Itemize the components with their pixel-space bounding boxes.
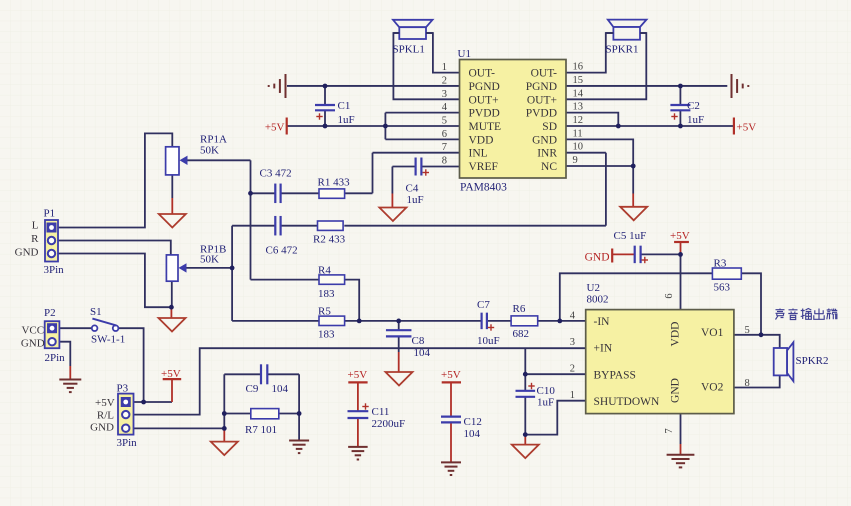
svg-text:PAM8403: PAM8403 [460, 182, 507, 194]
svg-text:15: 15 [573, 75, 584, 86]
svg-text:PGND: PGND [526, 81, 557, 93]
svg-text:5: 5 [745, 325, 750, 336]
svg-text:VO2: VO2 [701, 382, 724, 394]
svg-text:R: R [31, 233, 39, 245]
svg-text:8: 8 [745, 378, 750, 389]
svg-text:5: 5 [442, 116, 447, 127]
svg-text:2: 2 [570, 364, 575, 375]
svg-text:3: 3 [570, 337, 575, 348]
svg-text:L: L [32, 220, 39, 232]
svg-text:1uF: 1uF [537, 397, 554, 409]
svg-text:1uF: 1uF [687, 114, 704, 126]
svg-text:16: 16 [573, 62, 584, 73]
svg-text:6: 6 [442, 129, 447, 140]
svg-text:+5V: +5V [348, 369, 368, 381]
svg-text:GND: GND [21, 338, 45, 350]
svg-text:3Pin: 3Pin [117, 437, 138, 449]
svg-text:C4: C4 [406, 183, 419, 195]
svg-text:P1: P1 [44, 208, 56, 220]
svg-text:OUT-: OUT- [469, 68, 496, 80]
svg-text:SPKR1: SPKR1 [606, 44, 639, 56]
svg-text:C12: C12 [464, 416, 482, 428]
svg-text:R5: R5 [318, 306, 331, 318]
svg-text:OUT+: OUT+ [527, 94, 557, 106]
svg-text:104: 104 [464, 428, 481, 440]
svg-text:R1 433: R1 433 [318, 177, 351, 189]
svg-text:C6 472: C6 472 [266, 245, 298, 257]
svg-text:R4: R4 [318, 265, 331, 277]
svg-text:C3 472: C3 472 [260, 168, 292, 180]
svg-text:+5V: +5V [95, 397, 115, 409]
svg-text:+5V: +5V [737, 122, 757, 134]
svg-text:3Pin: 3Pin [44, 264, 65, 276]
svg-text:GND: GND [585, 252, 610, 264]
svg-text:11: 11 [573, 128, 583, 139]
svg-text:GND: GND [90, 422, 114, 434]
svg-text:VO1: VO1 [701, 327, 724, 339]
svg-text:9: 9 [573, 155, 578, 166]
svg-text:1uF: 1uF [407, 194, 424, 206]
svg-text:2Pin: 2Pin [45, 352, 66, 364]
svg-text:C2: C2 [687, 100, 700, 112]
svg-text:104: 104 [414, 347, 431, 359]
svg-text:NC: NC [541, 161, 557, 173]
svg-text:SW-1-1: SW-1-1 [91, 334, 125, 346]
svg-text:2200uF: 2200uF [372, 418, 406, 430]
svg-text:INR: INR [537, 148, 557, 160]
svg-text:R3: R3 [714, 258, 727, 270]
svg-text:50K: 50K [200, 145, 219, 157]
svg-text:R/L: R/L [97, 410, 114, 422]
svg-text:SD: SD [542, 121, 557, 133]
svg-text:183: 183 [318, 329, 335, 341]
svg-text:+5V: +5V [441, 369, 461, 381]
svg-text:6: 6 [664, 293, 675, 298]
svg-text:C11: C11 [372, 406, 390, 418]
svg-text:P3: P3 [117, 383, 129, 395]
svg-text:BYPASS: BYPASS [594, 369, 636, 381]
svg-text:+5V: +5V [161, 368, 181, 380]
svg-text:OUT-: OUT- [531, 68, 558, 80]
svg-text:C1: C1 [338, 100, 351, 112]
svg-text:1uF: 1uF [338, 114, 355, 126]
svg-text:-IN: -IN [594, 316, 611, 328]
svg-text:MUTE: MUTE [469, 121, 502, 133]
svg-text:682: 682 [513, 328, 530, 340]
svg-text:7: 7 [664, 428, 675, 433]
svg-text:C5 1uF: C5 1uF [614, 230, 647, 242]
svg-text:VDD: VDD [670, 322, 682, 347]
svg-text:P2: P2 [44, 307, 56, 319]
svg-text:GND: GND [670, 378, 682, 403]
svg-text:14: 14 [573, 88, 584, 99]
svg-text:10: 10 [573, 142, 584, 153]
svg-text:PGND: PGND [469, 81, 500, 93]
svg-text:+IN: +IN [594, 343, 613, 355]
svg-text:PVDD: PVDD [526, 108, 557, 120]
svg-text:VDD: VDD [469, 134, 494, 146]
svg-text:R7 101: R7 101 [245, 424, 277, 436]
svg-text:+5V: +5V [265, 122, 285, 134]
svg-text:GND: GND [532, 134, 557, 146]
svg-text:VREF: VREF [469, 161, 498, 173]
svg-text:13: 13 [573, 102, 584, 113]
svg-text:104: 104 [272, 383, 289, 395]
svg-text:R2 433: R2 433 [313, 234, 346, 246]
svg-text:GND: GND [15, 247, 39, 259]
svg-text:R6: R6 [513, 303, 526, 315]
svg-text:50K: 50K [200, 254, 219, 266]
svg-text:8002: 8002 [587, 294, 609, 306]
svg-text:2: 2 [442, 75, 447, 86]
svg-text:VCC: VCC [21, 325, 44, 337]
svg-text:C10: C10 [537, 385, 556, 397]
svg-text:S1: S1 [90, 306, 102, 318]
svg-text:12: 12 [573, 115, 584, 126]
svg-text:C9: C9 [246, 383, 259, 395]
svg-text:U2: U2 [587, 282, 600, 294]
svg-text:PVDD: PVDD [469, 108, 500, 120]
svg-text:7: 7 [442, 142, 447, 153]
svg-text:SHUTDOWN: SHUTDOWN [594, 396, 660, 408]
svg-text:563: 563 [714, 282, 731, 294]
svg-text:+5V: +5V [670, 230, 690, 242]
svg-text:4: 4 [442, 102, 448, 113]
svg-text:10uF: 10uF [477, 335, 500, 347]
svg-text:3: 3 [442, 89, 447, 100]
svg-text:INL: INL [469, 148, 488, 160]
svg-text:1: 1 [442, 62, 447, 73]
svg-text:SPKR2: SPKR2 [796, 355, 829, 367]
svg-text:183: 183 [318, 288, 335, 300]
svg-text:1: 1 [570, 390, 575, 401]
svg-text:4: 4 [570, 310, 576, 321]
svg-text:U1: U1 [458, 48, 471, 60]
svg-text:SPKL1: SPKL1 [393, 44, 425, 56]
svg-text:C8: C8 [412, 335, 425, 347]
svg-text:OUT+: OUT+ [469, 94, 499, 106]
svg-text:8: 8 [442, 156, 447, 167]
svg-text:C7: C7 [477, 299, 490, 311]
